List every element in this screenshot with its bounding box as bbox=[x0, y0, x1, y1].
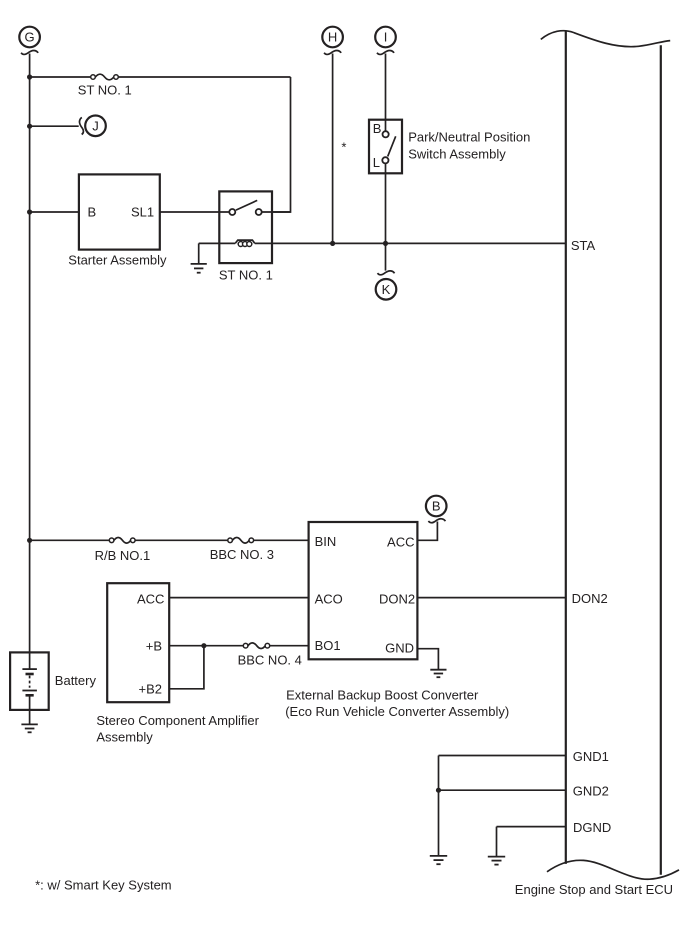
wire H vertical bbox=[332, 54, 334, 244]
wire PNP L down to STA row bbox=[385, 163, 387, 270]
ground (DGND) bbox=[488, 857, 505, 865]
ECU right edge bbox=[660, 45, 662, 875]
svg-text:BBC NO. 3: BBC NO. 3 bbox=[210, 547, 274, 562]
svg-text:*: w/ Smart Key System: *: w/ Smart Key System bbox=[35, 877, 172, 892]
ground (converter GND) bbox=[430, 670, 446, 678]
wire vertical from fuse row down to relay contact bbox=[272, 77, 291, 212]
wire bus to connector J bbox=[30, 125, 79, 127]
connector I bbox=[375, 27, 396, 55]
svg-text:DON2: DON2 bbox=[572, 591, 608, 606]
battery box bbox=[10, 652, 49, 710]
svg-text:Stereo Component Amplifier: Stereo Component Amplifier bbox=[96, 713, 259, 728]
node junction H / STA row bbox=[330, 241, 335, 246]
svg-text:STA: STA bbox=[571, 238, 596, 253]
wire relay coil row to ECU STA bbox=[199, 242, 236, 244]
node junction GND1/GND2 drop bbox=[436, 788, 441, 793]
svg-text:Starter Assembly: Starter Assembly bbox=[68, 252, 167, 267]
wire I vertical to park/neutral switch bbox=[385, 54, 387, 132]
node junction bus / R/B fuse row bbox=[27, 538, 32, 543]
ECU torn-edge top bbox=[541, 31, 670, 47]
svg-text:BBC NO. 4: BBC NO. 4 bbox=[238, 652, 302, 667]
wire vertical GND drop bbox=[438, 756, 440, 856]
PNP contact L bbox=[382, 157, 388, 163]
wire converter ACC to connector B bbox=[417, 522, 437, 541]
fuse ST NO. 1 bbox=[91, 74, 119, 80]
svg-text:DGND: DGND bbox=[573, 820, 611, 835]
svg-text:BIN: BIN bbox=[315, 534, 337, 549]
svg-text:*: * bbox=[341, 139, 346, 154]
svg-text:G: G bbox=[25, 30, 35, 45]
battery cells bbox=[22, 652, 37, 710]
svg-text:Switch Assembly: Switch Assembly bbox=[408, 147, 506, 162]
node junction +B / +B2 bbox=[201, 643, 206, 648]
wire amplifier ACC to converter ACO bbox=[169, 597, 308, 599]
svg-text:ST NO. 1: ST NO. 1 bbox=[78, 83, 132, 98]
svg-text:L: L bbox=[373, 155, 380, 170]
wire main bus from G to battery bbox=[29, 54, 31, 653]
ground (GND1/GND2) bbox=[430, 856, 447, 864]
svg-text:J: J bbox=[92, 119, 99, 134]
svg-text:GND2: GND2 bbox=[573, 784, 609, 799]
relay coil bbox=[235, 240, 255, 246]
fuse R/B NO.1 bbox=[109, 538, 135, 544]
svg-text:Assembly: Assembly bbox=[96, 729, 153, 744]
svg-text:I: I bbox=[384, 30, 388, 45]
wire DGND row ECU to ground drop bbox=[497, 826, 566, 828]
relay switch contact right bbox=[256, 209, 262, 215]
wire relay right contact to vertical bbox=[262, 211, 291, 213]
svg-text:SL1: SL1 bbox=[131, 205, 154, 220]
wire converter GND to ground bbox=[417, 649, 438, 670]
external backup boost converter box bbox=[309, 522, 418, 659]
svg-text:External Backup Boost Converte: External Backup Boost Converter bbox=[286, 687, 479, 702]
node junction K / STA row bbox=[383, 241, 388, 246]
node junction bus / starter row bbox=[27, 209, 32, 214]
relay switch arm bbox=[236, 200, 257, 210]
fuse BBC NO. 3 bbox=[228, 538, 254, 544]
svg-text:Battery: Battery bbox=[55, 673, 97, 688]
svg-text:+B: +B bbox=[146, 638, 162, 653]
fuse BBC NO. 4 bbox=[243, 643, 269, 649]
svg-text:+B2: +B2 bbox=[139, 682, 163, 697]
ground (relay coil) bbox=[191, 243, 207, 272]
svg-text:Engine Stop and Start ECU: Engine Stop and Start ECU bbox=[515, 882, 673, 897]
svg-text:ACC: ACC bbox=[387, 534, 414, 549]
svg-text:GND1: GND1 bbox=[573, 749, 609, 764]
wire +B row to converter BO1 bbox=[169, 645, 243, 647]
svg-text:Park/Neutral Position: Park/Neutral Position bbox=[408, 129, 530, 144]
connector B bbox=[426, 496, 447, 523]
wire bus to starter B pin bbox=[30, 211, 79, 213]
svg-text:GND: GND bbox=[385, 641, 414, 656]
svg-text:R/B NO.1: R/B NO.1 bbox=[95, 548, 151, 563]
PNP switch arm bbox=[388, 136, 396, 156]
wire R/B NO.1 - BBC NO.3 row to converter BIN bbox=[30, 539, 110, 541]
node junction bus / J row bbox=[27, 124, 32, 129]
svg-text:ST NO. 1: ST NO. 1 bbox=[219, 268, 273, 283]
park/neutral position switch box bbox=[369, 120, 402, 174]
relay switch contact left bbox=[229, 209, 235, 215]
svg-text:(Eco Run Vehicle Converter Ass: (Eco Run Vehicle Converter Assembly) bbox=[285, 704, 509, 719]
svg-text:B: B bbox=[432, 499, 441, 514]
wire +B2 jog up to +B row bbox=[169, 646, 204, 689]
svg-text:ACO: ACO bbox=[315, 591, 343, 606]
svg-text:B: B bbox=[373, 121, 382, 136]
svg-text:DON2: DON2 bbox=[379, 591, 415, 606]
wire vertical DGND drop bbox=[496, 827, 498, 857]
starter assembly box bbox=[79, 174, 160, 249]
ECU torn-edge bottom bbox=[547, 860, 679, 879]
stereo component amplifier box bbox=[107, 583, 169, 702]
wire ST NO.1 fuse row y=77 bbox=[30, 76, 91, 78]
wire GND1 row ECU to ground drop bbox=[439, 755, 566, 757]
connector K bbox=[376, 271, 397, 300]
svg-text:B: B bbox=[88, 205, 97, 220]
Engine Stop and Start ECU left edge bbox=[565, 31, 567, 864]
node junction bus / ST NO.1 fuse row bbox=[27, 74, 32, 79]
svg-text:H: H bbox=[328, 30, 337, 45]
wire GND2 row ECU to ground drop bbox=[439, 789, 566, 791]
wire DON2 row converter to ECU bbox=[417, 597, 565, 599]
PNP contact B bbox=[383, 131, 389, 137]
wire battery to ground bbox=[29, 710, 31, 725]
svg-text:K: K bbox=[382, 282, 391, 297]
svg-text:BO1: BO1 bbox=[315, 638, 341, 653]
ground (battery) bbox=[21, 724, 37, 732]
wire SL1 to relay contact bbox=[160, 211, 229, 213]
svg-text:ACC: ACC bbox=[137, 591, 164, 606]
connector G bbox=[19, 27, 40, 55]
relay ST NO. 1 box bbox=[219, 191, 272, 263]
connector J bbox=[79, 116, 105, 137]
connector H bbox=[322, 27, 343, 55]
